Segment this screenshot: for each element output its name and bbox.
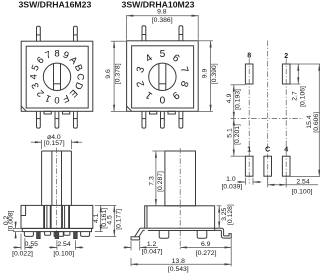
svg-text:C: C [74, 73, 85, 80]
switch S1 16-pos top view bottom pin 1 [37, 111, 41, 128]
switch S1 16-pos top view top pin 1 [37, 26, 41, 41]
dimension dia 4.0 arrows [31, 141, 42, 143]
switch S2 10-pos top view bottom pin 1 [142, 111, 146, 128]
dimension 3.25 line [218, 206, 220, 228]
svg-text:[0.022]: [0.022] [12, 250, 33, 257]
svg-text:[0.008]: [0.008] [8, 210, 15, 231]
dimension 1.0 arrows [237, 181, 246, 183]
dimension 1.2 extension lines [130, 241, 132, 250]
dimension 2.54 arrows (front) [49, 246, 57, 248]
svg-text:7: 7 [44, 49, 53, 61]
switch S2 10-pos top view top pin 1 [142, 26, 146, 41]
dimension 4.1 line [100, 205, 102, 231]
svg-text:9: 9 [170, 89, 181, 101]
pad 2 [282, 64, 290, 84]
front view pin 3 [74, 232, 78, 239]
svg-text:[0.106]: [0.106] [300, 86, 307, 107]
dimension 7.3 line [155, 151, 157, 206]
svg-text:4.9: 4.9 [226, 94, 233, 104]
front view internal dark bar 4 [68, 205, 70, 228]
svg-text:9.9: 9.9 [202, 69, 209, 79]
pad 4 [282, 156, 290, 176]
svg-text:6.9: 6.9 [201, 241, 211, 248]
switch S1 16-pos top view bottom edge notch 1 [44, 111, 51, 114]
switch S1 16-pos top view top pin 2 [74, 26, 78, 41]
dimension 13.8 line [131, 263, 231, 265]
svg-text:15.4: 15.4 [306, 115, 313, 128]
switch S2 10-pos top view top pin 2 [179, 26, 183, 41]
svg-text:[0.390]: [0.390] [211, 63, 218, 84]
svg-text:[0.128]: [0.128] [227, 204, 234, 225]
dimension 2.7 extension lines [290, 63, 320, 65]
dimension 2.7 line [297, 64, 299, 84]
dimension 13.8 extension line [130, 258, 132, 266]
switch S1 16-pos top view rotor circle [43, 63, 70, 90]
side view shaft [165, 151, 196, 206]
switch S1 16-pos top view bottom edge notch 2 [63, 111, 70, 114]
dimension 4.9 extension line [231, 84, 246, 86]
side view right mold foot [197, 231, 207, 239]
svg-text:13.8: 13.8 [172, 258, 185, 265]
svg-text:1.0: 1.0 [226, 176, 236, 183]
svg-text:[0.177]: [0.177] [115, 209, 122, 230]
dimension dia 4.0 extension lines [41, 140, 43, 150]
svg-text:6: 6 [170, 53, 181, 65]
switch S1 16-pos top view corner index chamfer [21, 106, 26, 111]
front view shaft slot lines [51, 151, 53, 205]
svg-text:[0.047]: [0.047] [142, 248, 163, 255]
svg-text:4.5: 4.5 [107, 215, 114, 225]
front view internal dark bar 1 [43, 205, 45, 228]
front view small foot left-mid [45, 232, 51, 236]
svg-text:0: 0 [54, 94, 59, 105]
dimension 0.55 extension lines [20, 234, 22, 250]
switch S2 10-pos top view bottom edge notch 1 [150, 111, 157, 114]
svg-text:7: 7 [178, 66, 190, 75]
dimension 6.9 extension line [230, 239, 232, 266]
svg-text:[0.193]: [0.193] [235, 89, 242, 110]
svg-text:[0.100]: [0.100] [292, 188, 313, 195]
svg-text:0: 0 [159, 94, 165, 105]
svg-text:4: 4 [284, 147, 288, 154]
dimension 1.0 extension lines [244, 178, 246, 185]
svg-text:[0.386]: [0.386] [152, 17, 173, 24]
dimension 7.3 extension line [152, 150, 164, 152]
side view left gull-wing pin [140, 227, 145, 229]
dimension 15.4 extension line bottom [290, 175, 320, 177]
switch S2 10-pos top view inner body edge [132, 46, 194, 108]
switch S2 10-pos top view corner index chamfer [127, 106, 132, 111]
dimension 2.54 extension lines (front) [56, 240, 58, 250]
svg-text:2: 2 [284, 53, 288, 60]
switch S2 10-pos top view bottom pin 3 [179, 111, 183, 128]
svg-text:0.55: 0.55 [25, 241, 38, 248]
pad 8 [245, 64, 253, 84]
dimension 15.4 line [318, 64, 320, 176]
svg-text:[0.039]: [0.039] [222, 183, 243, 190]
dimension 5.1 extension line [231, 155, 246, 157]
svg-text:8: 8 [54, 48, 59, 59]
svg-text:3: 3 [30, 81, 42, 90]
svg-text:[0.272]: [0.272] [196, 250, 217, 257]
switch S2 10-pos top view rotor circle [149, 63, 176, 90]
svg-text:8: 8 [247, 53, 251, 60]
svg-text:F: F [61, 92, 71, 104]
svg-text:5: 5 [160, 49, 166, 60]
svg-text:5.1: 5.1 [227, 128, 234, 138]
dimension 2.54 line (pads) [268, 184, 287, 186]
switch S1 16-pos top view bottom pin 2 [55, 111, 59, 128]
dimension 4.1 extension lines [95, 204, 117, 206]
svg-text:2.7: 2.7 [291, 91, 298, 101]
dimension 9.8 line [127, 15, 199, 17]
front view body [21, 205, 93, 228]
dimension 1.2 arrows [124, 246, 132, 248]
side view right gull-wing pin [215, 228, 232, 238]
front view right mold foot [81, 232, 90, 237]
side view left mold foot [159, 231, 169, 239]
dimension 9.8 extension lines [126, 15, 128, 40]
svg-text:4.1: 4.1 [93, 213, 100, 223]
front view pin 1 [37, 232, 41, 239]
svg-text:[0.157]: [0.157] [44, 140, 65, 147]
svg-text:3SW/DRHA16M23: 3SW/DRHA16M23 [18, 0, 91, 10]
pad layout: centerline column 2-4 [285, 59, 287, 184]
front view internal dark bar 2 [50, 205, 52, 228]
front view center post [54, 232, 63, 237]
dimension 0.55 arrows [13, 246, 21, 248]
side view body bottom line [148, 230, 215, 232]
dimension 2.54 extension lines (pads) [267, 178, 269, 188]
svg-text:2.54: 2.54 [57, 241, 70, 248]
front view shaft [42, 151, 72, 205]
front view internal dark bar 3 [61, 205, 63, 228]
pad layout: centerline column 8-1 [248, 59, 250, 184]
svg-text:[0.100]: [0.100] [53, 250, 74, 257]
svg-text:[0.378]: [0.378] [114, 63, 121, 84]
pad layout: horizontal centerline [231, 118, 304, 120]
dimension 6.9 line [180, 246, 231, 248]
switch S1 16-pos top view inner body edge [26, 46, 88, 108]
switch S2 10-pos top view bottom edge notch 2 [168, 111, 175, 114]
svg-text:7.3: 7.3 [149, 176, 156, 186]
svg-text:1.2: 1.2 [147, 241, 157, 248]
svg-text:[0.287]: [0.287] [157, 171, 164, 192]
dimension 4.9 line [233, 85, 235, 119]
front view left mold foot [24, 232, 33, 237]
front view pin 2 [55, 232, 59, 239]
dimension 5.1 line [233, 119, 235, 157]
dimension 9.6 line [113, 41, 115, 111]
dimension 0.2 extension lines [13, 227, 21, 229]
svg-text:2: 2 [135, 79, 147, 88]
svg-text:1: 1 [247, 147, 251, 154]
dimension 3.25 extension lines [217, 205, 222, 207]
svg-text:9.8: 9.8 [157, 9, 167, 16]
side view body inner line [146, 206, 148, 228]
front view top-left step notch [21, 205, 26, 215]
svg-text:4: 4 [29, 73, 40, 79]
pad C [264, 156, 272, 176]
dimension 4.5 line [113, 205, 115, 236]
dimension 9.6 extension lines [111, 40, 127, 42]
front view inner thin lines [46, 205, 48, 228]
switch S2 10-pos top view outer body [127, 41, 199, 112]
switch S1 16-pos top view outer body [21, 41, 93, 111]
front view centerline [56, 148, 58, 238]
svg-text:9.6: 9.6 [105, 69, 112, 79]
front view base strip [22, 228, 91, 231]
svg-text:C: C [265, 147, 270, 154]
svg-text:[0.606]: [0.606] [313, 112, 320, 133]
dimension 9.9 extension lines [198, 40, 212, 42]
front view small foot right-mid [64, 232, 70, 236]
switch S2 10-pos top view rotor slot [158, 64, 160, 91]
switch S1 16-pos top view bottom pin 3 [74, 111, 78, 128]
svg-text:[0.543]: [0.543] [168, 266, 189, 273]
svg-text:[0.201]: [0.201] [234, 124, 241, 145]
dimension 0.2 arrows [15, 222, 17, 229]
dimension 9.9 line [210, 41, 212, 112]
side view centerline [179, 148, 181, 250]
pad 1 [245, 156, 253, 176]
dimension 4.5 extension line [95, 235, 117, 237]
svg-text:1: 1 [143, 89, 154, 101]
side view body [145, 206, 215, 228]
switch S2 10-pos top view bottom pin 2 [161, 111, 165, 128]
svg-text:3: 3 [135, 65, 147, 74]
switch S1 16-pos top view rotor slot [53, 64, 55, 91]
svg-text:8: 8 [177, 79, 189, 88]
svg-text:2.54: 2.54 [296, 179, 309, 186]
pad layout: centerline column C [267, 41, 269, 184]
svg-text:4: 4 [144, 52, 155, 64]
